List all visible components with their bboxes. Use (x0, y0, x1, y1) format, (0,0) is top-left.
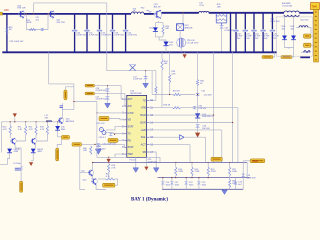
connector J40 (262, 56, 273, 59)
capacitor C11 (170, 181, 174, 184)
junction R15b bottom (208, 177, 209, 178)
svg-text:1.10 50V: 1.10 50V (204, 94, 213, 96)
svg-text:LGB: LGB (141, 129, 146, 132)
svg-text:270R: 270R (178, 171, 183, 173)
resistor R22 (229, 167, 231, 176)
label Q14 (83, 180, 88, 182)
label C12 (189, 182, 194, 186)
junction drain A (213, 115, 214, 116)
wire right bank vertical plain (230, 13, 232, 53)
label R34 (171, 71, 176, 75)
wire snubber left drop (25, 14, 27, 30)
power arrow IC (144, 167, 148, 171)
label R14 (178, 169, 183, 173)
label R12 (29, 127, 34, 131)
transformer T22 (177, 38, 186, 47)
label R15b (211, 169, 216, 173)
svg-text:BOR: BOR (140, 121, 146, 124)
svg-text:BRIDGE: BRIDGE (185, 28, 193, 30)
label C31 (102, 143, 116, 145)
svg-text:BLU 100: BLU 100 (301, 20, 310, 22)
resistor R34 (169, 75, 171, 83)
wire feedback loop (34, 3, 156, 71)
capacitor C19 (233, 182, 237, 185)
wire bottom bus 3 (162, 188, 243, 190)
IC left pin names (128, 98, 134, 156)
resistor R15b (207, 167, 209, 176)
wire snubber horizontal (26, 29, 48, 31)
label C42b (270, 19, 280, 23)
junction snubber left (26, 13, 27, 14)
capacitor C31 (96, 143, 101, 146)
svg-text:4.7UF 50V: 4.7UF 50V (76, 35, 86, 37)
connector TB40 header box (311, 3, 320, 10)
power arrow LED11 (29, 162, 33, 166)
resistor R30 on left vertical (6, 27, 8, 35)
wire LED10 down (0, 153, 10, 164)
svg-text:A/P: A/P (128, 105, 132, 108)
label C10 (166, 182, 171, 186)
label C16 value (204, 94, 213, 96)
wire J43 to strip (311, 44, 314, 46)
inductor L11 in rail (46, 121, 52, 122)
wire R26 block right bar (226, 13, 228, 23)
wire R33 down (161, 70, 163, 108)
svg-text:100K: 100K (232, 171, 237, 173)
resistor R33 (161, 59, 163, 70)
capacitor C28 (109, 133, 113, 136)
wire chain1 link (15, 148, 21, 156)
connector J30 (211, 157, 222, 161)
thermal switch S20 on loop (129, 65, 135, 71)
wire module diode drop 1 (284, 17, 286, 36)
label C41 (246, 33, 252, 40)
resistor R19 (173, 93, 181, 95)
wire R13 top (46, 122, 48, 126)
wire C10 bottom stub (162, 185, 164, 190)
wire long vertical drain A (213, 52, 215, 115)
diode LED10 (7, 149, 12, 153)
label C18 (202, 126, 210, 130)
junction C16 node (197, 94, 198, 95)
wire C18 to arrow (197, 128, 199, 133)
label C20 (76, 32, 86, 36)
svg-text:100n: 100n (175, 185, 179, 187)
wire loop cap to ground (145, 79, 147, 83)
wire base rail (1, 121, 61, 123)
label Q22 (154, 4, 161, 8)
module outline box (276, 17, 312, 56)
label C28 (99, 137, 107, 139)
resistor R13 (46, 126, 48, 135)
label L11 (45, 115, 50, 119)
wire D24 to lower bus (165, 46, 167, 52)
wire Q22 source split (155, 21, 163, 28)
capacitor C22 bank left (97, 14, 103, 52)
svg-text:CYCLE 4A: CYCLE 4A (282, 5, 292, 8)
label D21 (149, 28, 154, 30)
connector J31 (250, 159, 265, 163)
label D24 (169, 42, 174, 46)
svg-text:C9 100n: C9 100n (13, 163, 21, 165)
wire R26 block bottom join (216, 23, 227, 25)
wire opto to IC pin6 (106, 132, 124, 135)
wire C11 bottom stub (171, 185, 173, 190)
wire R11 top (25, 122, 27, 126)
resistor R26 (216, 15, 226, 17)
wire Q14 emitter (96, 184, 106, 190)
wire IC pin9 feed (115, 154, 124, 157)
label R13 (40, 127, 45, 131)
svg-text:TX: TX (128, 132, 132, 135)
wire R34 top (169, 52, 171, 74)
svg-text:R19 1R: R19 1R (173, 91, 180, 93)
capacitor C27 (105, 96, 110, 99)
connector J42 (304, 34, 312, 38)
svg-text:BAT3906: BAT3906 (66, 120, 75, 123)
wire J20 stub (66, 87, 74, 90)
label D41 (291, 26, 295, 30)
wire node drop from lower bus (49, 52, 74, 109)
label Q11 (81, 170, 86, 172)
label C14 (246, 175, 256, 179)
label D40 (282, 26, 286, 30)
wire branch to Q10 cap (62, 109, 74, 111)
svg-text:OFF: OFF (4, 8, 10, 12)
label T20 (133, 8, 137, 12)
label C40 (237, 33, 243, 40)
diode D10 (55, 126, 60, 130)
capacitor C23 bank left (110, 14, 116, 52)
svg-text:R18 1R: R18 1R (163, 104, 170, 106)
label R15 (195, 169, 200, 173)
wire left vertical bus (6, 14, 8, 52)
ground below C31 (95, 149, 101, 154)
wire pin wire A (149, 107, 172, 109)
svg-text:0.22F 50V: 0.22F 50V (225, 30, 235, 32)
wire pin wire A cont (181, 108, 238, 163)
wire R15b bottom stub (207, 176, 209, 178)
label T22 (187, 40, 200, 44)
wire Q13 emitter (34, 144, 36, 148)
svg-text:STK 72H: STK 72H (17, 8, 26, 10)
svg-text:ACT: ACT (141, 144, 146, 147)
junction R14 bottom (175, 177, 176, 178)
svg-text:MUR120 LD: MUR120 LD (202, 116, 214, 118)
wire J40 to bus (273, 52, 275, 57)
wire pin wire B (149, 115, 213, 162)
transistor Q20 (19, 11, 25, 19)
label C21 (36, 17, 41, 21)
wire L40 leads (296, 28, 311, 35)
inductor L40 module (299, 26, 308, 28)
junction R15b top (208, 162, 209, 163)
svg-text:C30 1.0UF 50V: C30 1.0UF 50V (10, 41, 24, 43)
wire under-IC return (97, 102, 160, 163)
junction opto node (114, 134, 115, 135)
junction bridge top (182, 12, 183, 13)
capacitor C26 (105, 88, 110, 91)
wire IC pin3 feed (97, 112, 125, 114)
svg-text:SGL: SGL (141, 136, 147, 139)
diode D16 (195, 113, 200, 118)
connector J27 vertical (56, 148, 59, 161)
junction C13 (198, 177, 199, 178)
IC left pin stubs (124, 99, 126, 154)
label C30 (10, 41, 24, 43)
wire R14 bottom stub (175, 176, 177, 178)
svg-text:RED: RED (252, 159, 258, 163)
label R33 (164, 61, 169, 65)
label D16 (202, 114, 214, 118)
connector J26 (62, 135, 70, 139)
label R17 (106, 174, 111, 178)
transistor Q11 (88, 170, 94, 177)
wire arrow stem (184, 52, 186, 54)
resistor R40 (90, 146, 92, 155)
svg-text:C43 4.22F: C43 4.22F (301, 52, 311, 54)
label R23 (232, 181, 237, 185)
svg-text:GRN: GRN (37, 151, 42, 153)
wire C11 top stub (171, 178, 173, 182)
IC right pin stubs (147, 100, 150, 152)
junction rail arrow (14, 121, 15, 122)
wire J42 to strip (311, 35, 314, 37)
svg-text:1.02F 50V: 1.02F 50V (133, 79, 143, 81)
label C26 (96, 88, 107, 92)
wire R17 left (98, 178, 106, 180)
svg-text:1M: 1M (9, 29, 12, 31)
wire R17 link (115, 179, 118, 185)
wire C13 bottom stub (198, 185, 200, 190)
junction pin3 feed (96, 112, 97, 113)
capacitor C9 (15, 166, 23, 170)
junction rail c3 (35, 121, 36, 122)
label C44 (255, 33, 261, 40)
IC right pin names (140, 99, 146, 154)
wire opto to IC pin5 (106, 127, 124, 130)
svg-text:SB: SB (142, 151, 146, 154)
capacitor C40 bank right (233, 13, 239, 53)
wire bottom bus 1 (93, 162, 248, 164)
svg-text:4.22F 50V: 4.22F 50V (270, 21, 280, 23)
wire C9 chain top (20, 156, 22, 167)
capacitor C41 bank right (243, 13, 249, 53)
label C17 loop (133, 76, 143, 80)
label U10 (130, 91, 142, 95)
svg-text:STK 72H: STK 72H (57, 22, 66, 24)
wire R19 leads (169, 94, 195, 96)
capacitor C17 loop (143, 76, 148, 79)
svg-text:4.10UF 50V: 4.10UF 50V (96, 99, 107, 101)
wire long vertical drain B (232, 52, 234, 122)
transistor Q21 (49, 11, 55, 19)
wire R26 block left bar (215, 13, 217, 23)
svg-text:100R: 100R (27, 22, 32, 24)
wire R12 to Q13 (35, 135, 37, 138)
label C45 (264, 33, 270, 40)
resistor R36 (216, 19, 226, 21)
connector J24 (108, 138, 118, 142)
wire J23 to IC (109, 119, 124, 120)
wire R13 to Q13 base (37, 135, 47, 141)
transistor Q13 (31, 138, 37, 145)
wire R15b top stub (207, 163, 209, 167)
wire J24 to IC (118, 139, 124, 141)
wire bus T20 to Q22 (144, 13, 154, 15)
junction J25 node (94, 144, 95, 145)
ground below C17 loop (143, 83, 149, 88)
svg-text:CYCLE 277V: CYCLE 277V (187, 43, 200, 45)
svg-text:BAY 1 (Dynamic): BAY 1 (Dynamic) (131, 195, 168, 202)
power arrow D16 chain (195, 133, 200, 138)
label Q21 (57, 20, 66, 24)
junction C12 (186, 177, 187, 178)
connector J43 (304, 43, 312, 47)
power arrow R16 (107, 159, 111, 163)
wire arrow LED11 stem (31, 160, 33, 162)
label C19 (238, 182, 243, 186)
label R18 (163, 104, 170, 106)
label C22 (101, 32, 111, 36)
junction return arrow (108, 157, 109, 158)
connector pin P1 input (0, 12, 2, 15)
transistor Q12 (11, 138, 17, 145)
svg-text:4.7K: 4.7K (3, 129, 8, 131)
label D10 (61, 127, 66, 131)
svg-text:4.7UF 50V: 4.7UF 50V (114, 35, 124, 37)
connector J25 (72, 143, 82, 147)
resistor R16 (108, 163, 110, 172)
capacitor C21b bank left (84, 14, 90, 52)
wire R22 bottom stub (229, 176, 231, 180)
label C27 (96, 96, 107, 100)
bus segment module bottom (300, 56, 310, 58)
junction R22 top (229, 162, 230, 163)
wire J31 vertical (242, 161, 244, 190)
svg-text:2.7K: 2.7K (111, 167, 116, 169)
wire R34 down (169, 83, 171, 95)
diode D41 (291, 36, 296, 40)
junction loop at bus (33, 13, 34, 14)
wire Q11 collector (92, 163, 94, 170)
svg-text:C28 4.7: C28 4.7 (99, 137, 107, 139)
label R40 (83, 148, 88, 152)
connector J21 (85, 84, 95, 87)
junction R15 top (191, 162, 192, 163)
op-amp U10 controller IC (127, 95, 147, 157)
svg-text:STAT: STAT (128, 146, 134, 149)
svg-text:TMP: TMP (128, 153, 134, 156)
svg-text:4.7K: 4.7K (29, 129, 34, 131)
label R30 (9, 27, 14, 31)
transistor Q22 (154, 10, 162, 18)
wire J31 left (243, 160, 250, 162)
diode D24 (163, 42, 168, 46)
transformer B40 (284, 11, 299, 16)
label Preset (130, 158, 136, 161)
connector J41 (281, 56, 292, 59)
label C43b (301, 52, 311, 54)
svg-text:4.10 50V: 4.10 50V (198, 108, 207, 110)
label R19 (173, 91, 180, 93)
label C46 (273, 33, 279, 40)
wire pin wire E cont (184, 137, 206, 162)
wire Q11 emitter to Q14 (91, 175, 92, 178)
svg-text:4.7UF 50V: 4.7UF 50V (89, 35, 99, 37)
junction R14 top (175, 162, 176, 163)
optocoupler U11 (99, 128, 106, 135)
transistor Q14 (92, 179, 98, 186)
wire bus to bridge (182, 13, 184, 24)
resistor R17 (106, 178, 115, 180)
label C29 (96, 146, 106, 150)
resistor R21 snubber (29, 28, 36, 30)
resistor R23 (229, 180, 231, 188)
label Q20 (17, 5, 26, 9)
junction Q11 bus (92, 162, 93, 163)
svg-text:Preset: Preset (130, 158, 136, 161)
label BLU (301, 20, 310, 22)
label Q10 (66, 119, 75, 123)
label C11 (175, 182, 179, 186)
wire bus Q22 to L20 (162, 12, 199, 14)
label R16 (111, 165, 116, 169)
svg-text:ACT: ACT (128, 98, 133, 101)
wire R22 top stub (229, 163, 231, 167)
label C35 (148, 159, 158, 163)
wire Q10 top (61, 110, 63, 117)
wire R14 top stub (175, 163, 177, 167)
connector J29 (103, 183, 115, 187)
label R11 (18, 127, 23, 131)
resistor R14 (175, 167, 177, 176)
junction rail c1 (10, 121, 11, 122)
wire R23 bottom stub (229, 188, 231, 190)
svg-text:GRN: GRN (14, 151, 19, 153)
svg-text:4.10F 50V: 4.10F 50V (246, 178, 256, 180)
capacitor C10 (161, 181, 165, 184)
svg-text:STAT: STAT (128, 126, 134, 129)
svg-text:ATB: ATB (141, 107, 146, 110)
wire R15 bottom stub (191, 176, 193, 178)
wire branch to C21 row (74, 101, 97, 103)
wire J26 to J27 (57, 139, 61, 148)
svg-text:R37 4.7K: R37 4.7K (96, 123, 105, 125)
ground IC 2 (153, 168, 159, 173)
wire C9 to J28 (20, 170, 22, 181)
ground IC 1 (133, 168, 139, 173)
wire C13 top stub (198, 178, 200, 182)
junction C11 (171, 177, 172, 178)
fuse F40 (304, 50, 311, 52)
wire J22 to IC (95, 94, 127, 106)
wire arrow rail stem (14, 118, 16, 122)
wire T22 to lower bus (180, 47, 182, 52)
bridge rectifier D23 (177, 24, 184, 31)
wire left return drop (80, 146, 85, 189)
label R24 (165, 26, 170, 30)
label B40 (282, 3, 292, 7)
label R26 (217, 4, 222, 8)
wire J30 stub (216, 161, 218, 162)
diode D17 inline (180, 135, 184, 140)
label C47 (225, 28, 235, 32)
label C21b (89, 32, 99, 36)
wire C19 stubs (235, 178, 237, 190)
junction rail c4 (47, 121, 48, 122)
svg-text:100n: 100n (166, 185, 170, 187)
